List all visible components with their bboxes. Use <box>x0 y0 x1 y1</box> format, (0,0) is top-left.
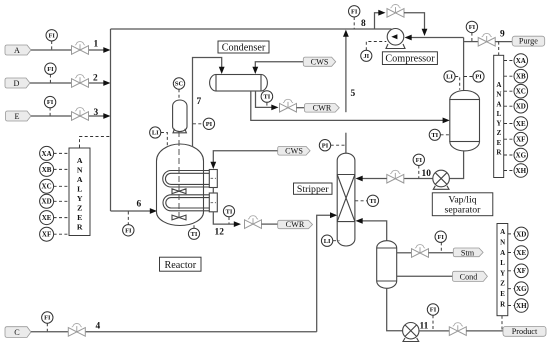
svg-text:CWR: CWR <box>313 104 332 113</box>
svg-text:L: L <box>500 259 505 267</box>
svg-text:XF: XF <box>516 136 525 144</box>
svg-text:separator: separator <box>445 205 482 216</box>
node XG product <box>508 288 515 290</box>
wire condenser to separator <box>251 91 444 120</box>
svg-text:XE: XE <box>42 214 52 222</box>
node XC right <box>504 90 514 92</box>
svg-text:8: 8 <box>361 19 366 29</box>
svg-text:XH: XH <box>516 167 527 175</box>
valve stream 2 <box>72 75 89 88</box>
TI stripper <box>355 200 367 202</box>
coil block lower <box>209 193 217 212</box>
svg-text:XD: XD <box>516 230 526 238</box>
JI compressor <box>366 42 386 51</box>
label box Condenser <box>218 41 269 53</box>
svg-text:A: A <box>77 175 83 184</box>
svg-text:Z: Z <box>500 280 505 288</box>
node arrow stream 2 into header <box>103 80 110 86</box>
wire pump to valve 10 <box>404 178 433 180</box>
svg-text:TI: TI <box>191 231 198 238</box>
node XH right <box>504 170 514 172</box>
analyzer box right lower <box>497 224 508 316</box>
svg-text:TI: TI <box>226 208 233 215</box>
svg-text:Compressor: Compressor <box>385 54 435 65</box>
svg-text:LI: LI <box>324 238 331 245</box>
wire condenser CWS <box>255 62 303 68</box>
tag CWS condenser <box>303 57 335 66</box>
svg-text:XH: XH <box>516 302 527 310</box>
svg-text:XC: XC <box>42 183 52 191</box>
svg-text:Z: Z <box>497 129 502 137</box>
svg-text:D: D <box>14 79 20 88</box>
node arrow stream 7 into condenser <box>219 67 225 74</box>
svg-text:FI: FI <box>47 99 54 106</box>
node arrow bypass down <box>422 29 428 36</box>
tag CWR reactor <box>278 220 313 228</box>
wire condensate line <box>397 275 453 277</box>
svg-text:LI: LI <box>446 74 453 81</box>
tag Stm <box>453 248 483 257</box>
node XD left <box>54 200 69 202</box>
svg-text:XA: XA <box>42 150 52 158</box>
reactor vessel <box>157 144 204 226</box>
tag Product <box>503 326 546 336</box>
svg-text:N: N <box>496 91 501 99</box>
svg-text:FI: FI <box>125 227 132 234</box>
valve purge <box>478 33 495 46</box>
svg-text:FI: FI <box>47 66 54 73</box>
node XA left <box>54 152 69 154</box>
svg-text:12: 12 <box>215 228 225 238</box>
wire pump to product valve <box>419 330 449 332</box>
tag Purge <box>512 36 545 46</box>
node XD product <box>508 233 515 235</box>
stirrer shaft <box>178 131 180 218</box>
svg-text:N: N <box>77 166 83 175</box>
svg-text:FI: FI <box>469 24 476 31</box>
node arrow stream 4 into stripper <box>330 212 337 218</box>
wire compressor suction <box>411 37 464 39</box>
svg-text:XD: XD <box>516 103 526 111</box>
svg-text:Y: Y <box>496 120 501 128</box>
svg-text:XE: XE <box>516 120 526 128</box>
valve reactor CWR <box>245 216 262 229</box>
svg-text:A: A <box>500 228 505 236</box>
svg-text:FI: FI <box>44 315 51 322</box>
svg-text:Stripper: Stripper <box>297 184 329 195</box>
svg-text:FI: FI <box>351 8 358 15</box>
svg-text:FI: FI <box>437 234 444 241</box>
node XE right <box>504 123 514 125</box>
label box Compressor <box>382 52 437 65</box>
feed tag A <box>5 45 31 55</box>
node arrow stream 1 into header <box>103 47 110 53</box>
svg-text:XG: XG <box>516 285 527 293</box>
svg-text:XF: XF <box>42 231 51 239</box>
LI separator <box>455 77 460 90</box>
wire stream 6 reactor feed <box>111 210 152 212</box>
svg-text:C: C <box>14 328 20 337</box>
stripper column <box>337 153 355 246</box>
svg-text:XB: XB <box>42 166 52 174</box>
svg-text:PI: PI <box>475 74 482 81</box>
svg-text:R: R <box>77 223 83 232</box>
svg-text:1: 1 <box>94 40 99 50</box>
wire stream 5 stripper overhead lower <box>345 133 347 154</box>
reboiler vessel <box>377 241 397 289</box>
node XC left <box>54 185 69 187</box>
svg-text:A: A <box>496 81 501 89</box>
stripper packing section <box>337 175 355 222</box>
condenser vessel <box>216 75 261 92</box>
FI purge <box>471 33 473 42</box>
node XB right <box>504 75 514 77</box>
wire feed header vertical <box>110 29 112 211</box>
svg-text:E: E <box>497 139 502 147</box>
svg-text:FI: FI <box>430 307 437 314</box>
node arrow into separator <box>443 118 450 124</box>
svg-text:TI: TI <box>370 198 377 205</box>
svg-text:Y: Y <box>500 269 505 277</box>
tag CWS reactor <box>278 146 310 155</box>
svg-text:Reactor: Reactor <box>164 260 196 271</box>
svg-text:LI: LI <box>152 130 159 137</box>
pump stream 11 <box>403 338 419 342</box>
wire analyzer2 sample from product line <box>501 316 503 331</box>
node XF right <box>504 138 514 140</box>
svg-text:A: A <box>77 156 83 165</box>
node arrow stream 6 into reactor <box>150 208 157 214</box>
node arrow into compressor <box>405 35 412 41</box>
FI stream 2 <box>49 75 51 83</box>
FI stream 3 <box>49 108 51 116</box>
wire reboiler vapor return <box>362 221 387 241</box>
TI reactor CW out <box>228 217 230 224</box>
wire analyzer1 sample from purge <box>498 42 500 55</box>
TI separator <box>441 134 450 136</box>
wire stream 5 riser <box>345 34 347 113</box>
node XF left <box>54 233 69 235</box>
PI stream 7 <box>193 123 203 125</box>
svg-text:PI: PI <box>322 142 329 149</box>
FI stream 11 <box>432 315 434 330</box>
pump stream 10 <box>433 186 449 190</box>
node arrow condenser CWR <box>271 105 278 111</box>
wire analyzer sample dashed to header <box>80 137 111 148</box>
wire stream 7 reactor to condenser <box>193 58 222 148</box>
svg-text:11: 11 <box>420 322 429 332</box>
valve stream 10 <box>387 170 404 183</box>
svg-text:A: A <box>14 46 20 55</box>
wire header top horizontal to compressor <box>111 28 392 30</box>
wire feed D line <box>30 82 105 84</box>
svg-text:JI: JI <box>363 53 369 60</box>
svg-text:TI: TI <box>264 94 271 101</box>
LI reactor <box>161 133 167 147</box>
wire stream 4 riser to stripper <box>317 215 331 332</box>
feed tag C <box>5 327 31 338</box>
wire between coil blocks <box>212 188 214 194</box>
node arrow CWS into condenser <box>252 67 258 74</box>
FI stream 4 <box>46 323 48 331</box>
svg-text:Cond: Cond <box>460 272 478 281</box>
SC stirrer controller <box>178 89 180 100</box>
svg-text:2: 2 <box>93 73 98 83</box>
stirrer motor <box>173 100 187 131</box>
svg-text:Z: Z <box>77 204 82 213</box>
svg-text:Product: Product <box>512 327 538 336</box>
svg-text:XC: XC <box>516 88 526 96</box>
tag Cond <box>453 271 488 281</box>
wire compressor bypass <box>375 13 380 29</box>
svg-text:XG: XG <box>516 151 527 159</box>
feed tag E <box>6 111 32 121</box>
svg-text:XD: XD <box>42 198 52 206</box>
coil block upper <box>209 170 217 188</box>
node arrow CWR <box>234 221 241 227</box>
impeller lower <box>172 215 186 220</box>
svg-text:A: A <box>496 100 501 108</box>
separator vessel <box>450 100 480 142</box>
svg-text:10: 10 <box>422 169 432 179</box>
svg-text:3: 3 <box>94 108 99 118</box>
valve bypass <box>387 5 404 18</box>
svg-text:PI: PI <box>206 121 213 128</box>
svg-text:A: A <box>500 249 505 257</box>
FI stream 6 <box>127 212 129 225</box>
svg-text:E: E <box>500 290 505 298</box>
svg-text:9: 9 <box>500 30 505 40</box>
svg-text:XF: XF <box>517 267 526 275</box>
node arrow CW into coil block <box>210 162 216 169</box>
wire steam line <box>397 252 412 254</box>
wire feed E line <box>31 115 105 117</box>
node arrow stream 5 into header <box>343 30 349 37</box>
node XG right <box>504 154 514 156</box>
node arrow bypass <box>378 10 385 16</box>
wire separator top line <box>463 38 465 92</box>
svg-text:E: E <box>77 213 82 222</box>
svg-text:FI: FI <box>48 32 55 39</box>
node XE product <box>508 252 515 254</box>
TI reactor bottom <box>193 224 195 229</box>
svg-text:XE: XE <box>516 249 526 257</box>
node XF product <box>508 270 515 272</box>
wire stream 4 C feed <box>31 331 317 333</box>
wire feed A line <box>31 49 105 51</box>
node XD right <box>504 105 514 107</box>
analyzer box right upper <box>494 55 504 177</box>
reactor coil upper <box>163 171 209 188</box>
valve product <box>449 323 466 336</box>
svg-text:5: 5 <box>351 89 356 99</box>
label box Stripper <box>294 183 333 194</box>
impeller upper <box>172 189 186 194</box>
wire separator bottoms stream 10 <box>450 151 464 179</box>
FI stream 1 <box>51 41 53 50</box>
svg-text:SC: SC <box>175 81 184 88</box>
FI steam <box>440 242 442 252</box>
FI stream 10 <box>418 166 420 179</box>
wire reboiler bottoms stream 11 <box>387 288 403 330</box>
valve stream 4 <box>68 324 85 337</box>
PI separator <box>464 76 473 78</box>
svg-text:CWR: CWR <box>286 220 305 229</box>
valve steam <box>412 245 429 258</box>
wire reactor CWS line <box>213 151 277 163</box>
TI condenser <box>266 103 268 107</box>
tag CWR condenser <box>304 104 339 113</box>
svg-text:FI: FI <box>416 157 423 164</box>
reactor coil lower <box>163 195 209 211</box>
wire condenser CW return <box>256 91 273 107</box>
label box Reactor <box>160 257 202 271</box>
valve stream 1 <box>72 42 89 55</box>
svg-text:7: 7 <box>197 97 202 107</box>
wire reactor CWR line stream 12 <box>213 212 235 224</box>
svg-text:Purge: Purge <box>519 37 538 46</box>
svg-text:Y: Y <box>77 194 83 203</box>
svg-text:4: 4 <box>96 322 101 332</box>
svg-text:CWS: CWS <box>285 147 303 156</box>
svg-text:N: N <box>500 239 505 247</box>
node XH product <box>508 305 515 307</box>
svg-text:Condenser: Condenser <box>222 43 266 54</box>
wire purge stream 9 <box>464 41 479 43</box>
svg-text:XA: XA <box>516 57 526 65</box>
svg-text:CWS: CWS <box>311 58 329 67</box>
node XE left <box>54 217 69 219</box>
node arrow vapor into stripper <box>356 218 363 224</box>
node XA right <box>504 60 514 62</box>
feed tag D <box>5 78 30 88</box>
FI stream 8 <box>353 17 355 29</box>
svg-text:Stm: Stm <box>461 248 475 257</box>
compressor U1 <box>386 44 405 49</box>
PI stripper overhead <box>331 144 346 146</box>
svg-text:L: L <box>77 185 82 194</box>
svg-text:6: 6 <box>137 200 142 210</box>
analyzer box left <box>69 148 90 236</box>
node arrow stream 10 into stripper <box>356 176 363 182</box>
valve stream 3 <box>72 108 89 121</box>
svg-text:TI: TI <box>431 132 438 139</box>
valve condenser CWR <box>280 99 297 112</box>
node XB left <box>54 168 69 170</box>
svg-text:E: E <box>14 112 19 121</box>
svg-text:XB: XB <box>516 73 526 81</box>
svg-text:L: L <box>497 110 502 118</box>
LI stripper <box>333 240 340 242</box>
label box Vap/liq separator <box>432 193 493 216</box>
node arrow stream 3 into header <box>103 113 110 119</box>
